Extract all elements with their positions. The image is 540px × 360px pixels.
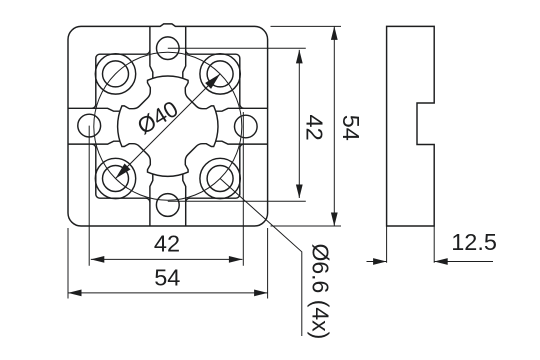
dimension vertical 42: extension lines bbox=[168, 48, 306, 201]
leader line Ø6.6 bbox=[220, 179, 302, 337]
arrowhead h54 left bbox=[68, 290, 82, 297]
counterbore hole bottom-right bbox=[200, 158, 240, 198]
arrowhead v42 bottom bbox=[296, 185, 303, 199]
dimension horizontal 54: line bbox=[68, 292, 268, 294]
svg-text:Ø6.6 (4x): Ø6.6 (4x) bbox=[307, 243, 333, 339]
arrowhead d40 bottom-left bbox=[116, 164, 131, 179]
svg-text:54: 54 bbox=[154, 265, 180, 291]
slot channel west bbox=[68, 108, 120, 144]
arrowhead v54 bottom bbox=[331, 213, 338, 227]
mid-edge hole east bbox=[235, 115, 258, 138]
pocket edge bottom-left bbox=[92, 144, 150, 202]
dimension horizontal 42: extension lines bbox=[89, 112, 243, 266]
svg-text:54: 54 bbox=[338, 115, 364, 141]
svg-text:42: 42 bbox=[302, 115, 328, 141]
plate outline (front view outer rounded square 54x54) bbox=[68, 24, 268, 226]
pitch circle through corner holes (Ø40) bbox=[94, 52, 242, 200]
dimension 12.5: extension lines bbox=[387, 227, 435, 263]
arrowhead v54 top bbox=[331, 26, 338, 40]
pocket edge bottom-right bbox=[186, 144, 244, 202]
dimension diagonal Ø40 line bbox=[116, 74, 221, 179]
pocket edge top-right bbox=[186, 50, 244, 108]
side view outline with groove bbox=[387, 26, 435, 226]
dimension vertical 54: extension lines bbox=[271, 26, 342, 226]
counterbore hole top-right bbox=[200, 54, 240, 94]
mid-edge hole west bbox=[78, 114, 101, 137]
arrowhead d40 top-right bbox=[205, 74, 220, 89]
slot channel south bbox=[150, 174, 186, 226]
arrowhead h54 right bbox=[254, 290, 268, 297]
svg-text:12.5: 12.5 bbox=[451, 229, 497, 255]
arrowhead h42 left bbox=[91, 256, 105, 263]
pocket edge top-left bbox=[92, 50, 150, 108]
mid-edge hole south bbox=[156, 194, 179, 217]
arrowhead 12.5 right bbox=[434, 258, 448, 265]
arrowhead v42 top bbox=[296, 50, 303, 64]
dimension vertical 42: line bbox=[298, 50, 300, 198]
central boss (circle with four T-stubs) bbox=[118, 76, 218, 176]
dimension horizontal 54: extension lines bbox=[68, 228, 268, 299]
counterbore hole bottom-left bbox=[95, 158, 135, 198]
counterbore hole top-left bbox=[95, 54, 135, 94]
slot channel east bbox=[216, 108, 268, 144]
svg-text:Ø40: Ø40 bbox=[133, 96, 182, 139]
arrowhead 12.5 left bbox=[373, 258, 387, 265]
svg-text:42: 42 bbox=[154, 231, 180, 257]
slot channel north bbox=[150, 26, 186, 78]
dimension vertical 54: line bbox=[333, 26, 335, 226]
mid-edge hole north bbox=[157, 37, 180, 60]
arrowhead h42 right bbox=[229, 256, 243, 263]
dimension horizontal 42: line bbox=[91, 258, 243, 260]
dimension 12.5: line segments bbox=[367, 261, 494, 263]
